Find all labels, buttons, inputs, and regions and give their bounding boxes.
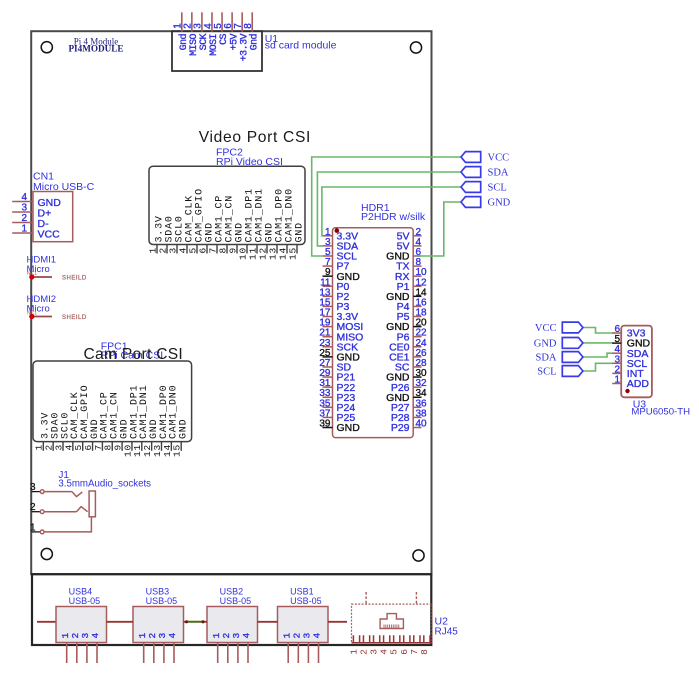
U2 pin 1 comb contact: [353, 635, 359, 643]
HDR1 pin 23 (SCK): stub, number, name: [323, 346, 333, 348]
net wire SDA to HDR1 pin 3 row: [317, 172, 461, 246]
jack U2 dashed outline: [352, 604, 433, 643]
HDR1 pin 28 (SC): stub, number, name: [413, 366, 421, 368]
U1 pin 2 (MISO): line, number, name: [191, 12, 193, 32]
svg-text:USB-05: USB-05: [220, 596, 252, 606]
HDR1 pin 24 (CE0): stub, number, name: [413, 346, 421, 348]
net wire GND to U3 pin 5: [583, 342, 613, 344]
HDR1 box: [333, 228, 414, 438]
U2 pin 2 comb contact: [363, 635, 369, 643]
svg-text:39: 39: [319, 419, 331, 430]
svg-text:USB1: USB1: [290, 586, 314, 596]
net flag VCC (left group): [461, 152, 481, 163]
mounting hole top-right: [410, 42, 421, 53]
net wire VCC to HDR1 pin 5 row: [312, 157, 461, 256]
svg-text:USB3: USB3: [146, 586, 170, 596]
U2 pin comb base line: [352, 642, 432, 644]
svg-text:SDA: SDA: [488, 168, 509, 179]
net stub to USB4 (left): [37, 621, 56, 623]
HDR1 pin 20 (GND): stub, number, name: [413, 326, 421, 328]
CN1 pin 4 (GND): line, number, name: [12, 201, 33, 203]
net segment USB3-USB2 (olive wire): [187, 621, 204, 623]
board outline bottom section: [32, 574, 431, 645]
svg-text:3.5mmAudio_sockets: 3.5mmAudio_sockets: [58, 479, 151, 490]
svg-text:USB4: USB4: [69, 586, 93, 596]
svg-text:RJ45: RJ45: [435, 626, 459, 637]
HDR1 pin 8 (TX): stub, number, name: [413, 265, 421, 267]
HDR1 pin 40 (P29): stub, number, name: [413, 427, 421, 429]
svg-text:GND: GND: [534, 338, 557, 349]
HDR1 pin 17 (3.3V): stub, number, name: [323, 316, 333, 318]
sensor U3 box: [621, 326, 652, 398]
U3 pin 1 (ADD): stub, number, name: [612, 383, 621, 385]
svg-text:PI4MODULE: PI4MODULE: [68, 44, 123, 54]
net wire VCC to U3 pin 6: [583, 328, 613, 334]
HDR1 pin 2 (5V): stub, number, name: [413, 235, 421, 237]
svg-text:4: 4: [21, 192, 27, 203]
HDR1 pin 31 (P22): stub, number, name: [323, 386, 333, 388]
CN1 pin 3 (D+): line, number, name: [12, 211, 33, 213]
HDR1 pin 36 (P27): stub, number, name: [413, 406, 421, 408]
svg-text:GND: GND: [488, 198, 511, 209]
net wire SDA to U3 pin 4: [583, 353, 613, 357]
U3 pin 3 (SCL): stub, number, name: [612, 362, 621, 364]
svg-text:VCC: VCC: [488, 153, 510, 164]
net wire SCL to HDR1 pin 1 row: [322, 187, 461, 236]
net flag SCL (left group): [461, 182, 481, 193]
svg-text:P29: P29: [391, 422, 410, 434]
U2 pin 3 comb contact: [374, 635, 380, 643]
svg-text:VCC: VCC: [535, 323, 557, 334]
mounting hole bottom-right: [413, 550, 424, 561]
svg-text:40: 40: [416, 419, 428, 430]
HDR1 pin 14 (GND): stub, number, name: [413, 295, 421, 297]
U2 pin 5 comb contact: [394, 635, 400, 643]
HDR1 pin 1 marker dot: [335, 228, 340, 233]
J1 pin 3 open circle and contact line: [40, 490, 44, 494]
svg-text:4: 4: [90, 633, 101, 639]
junction dot right of olive segment: [201, 620, 204, 623]
svg-text:SCL: SCL: [537, 367, 556, 378]
U2 dashed tick left: [365, 592, 367, 604]
net wire GND to HDR1 pin 6 row: [418, 202, 461, 256]
J1 pin 1 open circle and line to sleeve: [40, 530, 44, 534]
HDR1 pin 39 (GND): stub, number, name: [323, 427, 333, 429]
svg-text:USB2: USB2: [220, 586, 244, 596]
svg-text:8: 8: [419, 649, 430, 655]
U2 RJ45 jack symbol: [380, 614, 403, 629]
HDR1 pin 33 (P23): stub, number, name: [323, 396, 333, 398]
svg-text:1: 1: [21, 224, 27, 235]
HDR1 pin 19 (MOSI): stub, number, name: [323, 326, 333, 328]
svg-text:4: 4: [312, 633, 323, 639]
mounting hole bottom-left: [41, 548, 52, 559]
HDR1 pin 1 (3.3V): stub, number, name: [323, 235, 333, 237]
net flag VCC (U3 group): [562, 322, 583, 333]
HDR1 pin 26 (CE1): stub, number, name: [413, 356, 421, 358]
J1 jack barrel: [89, 491, 95, 517]
net segment USB2-USB1: [258, 621, 278, 623]
U2 pin 7 comb contact: [414, 635, 420, 643]
svg-text:SHEILD: SHEILD: [62, 315, 87, 321]
net wire SCL to U3 pin 3: [583, 363, 613, 371]
svg-text:8: 8: [243, 23, 254, 29]
U2 dashed tick right: [415, 592, 417, 604]
net flag GND (U3 group): [562, 338, 583, 349]
svg-text:SCL: SCL: [488, 183, 507, 194]
net segment USB4-USB3: [107, 621, 134, 623]
J1 pin 2 open circle and contact line: [40, 510, 44, 514]
HDR1 pin 12 (P1): stub, number, name: [413, 285, 421, 287]
svg-text:4: 4: [167, 633, 178, 639]
HDR1 pin 10 (RX): stub, number, name: [413, 275, 421, 277]
net flag GND (left group): [461, 197, 481, 208]
net segment USB3-USB2 (red stubs): [184, 621, 188, 623]
svg-text:VCC: VCC: [38, 229, 61, 241]
U2 pin 4 comb contact: [384, 635, 390, 643]
HDR1 pin 22 (P6): stub, number, name: [413, 336, 421, 338]
J1 pin 1 tick: [32, 531, 41, 533]
svg-text:SHEILD: SHEILD: [62, 276, 87, 282]
U3 pin 6 (3V3): stub, number, name: [612, 332, 621, 334]
svg-text:MPU6050-TH: MPU6050-TH: [631, 406, 690, 417]
HDR1 pin 27 (SD): stub, number, name: [323, 366, 333, 368]
U3 pin 4 (SDA): stub, number, name: [612, 352, 621, 354]
HDMI1 shield pin line: [32, 276, 52, 278]
J1 pin 3 tick: [32, 491, 41, 493]
J1 pin 2 tick: [32, 511, 41, 513]
svg-text:1: 1: [614, 375, 620, 386]
HDR1 pin 18 (P5): stub, number, name: [413, 316, 421, 318]
HDR1 pin 37 (P25): stub, number, name: [323, 416, 333, 418]
svg-text:2: 2: [21, 213, 27, 224]
HDR1 pin 30 (GND): stub, number, name: [413, 376, 421, 378]
HDR1 pin 35 (P24): stub, number, name: [323, 406, 333, 408]
U1 pin 1 (Gnd): line, number, name: [181, 12, 183, 32]
U1 pin 5 (CS): line, number, name: [221, 12, 223, 32]
HDR1 pin 5 (SCL): stub, number, name: [323, 255, 333, 257]
svg-text:SDA: SDA: [535, 353, 556, 364]
HDMI1 junction dot: [29, 274, 34, 279]
board outline (module body): [31, 31, 431, 574]
HDR1 pin 16 (P4): stub, number, name: [413, 305, 421, 307]
svg-text:15: 15: [287, 247, 298, 260]
U2 pin 6 comb contact: [404, 635, 410, 643]
USB2 box: [207, 607, 258, 643]
HDR1 pin 7 (P7): stub, number, name: [323, 265, 333, 267]
CN1 box: [33, 192, 73, 242]
svg-text:4: 4: [241, 633, 252, 639]
USB1 box: [278, 607, 329, 643]
svg-text:USB-05: USB-05: [146, 596, 178, 606]
net stub USB1 to U2: [328, 621, 347, 623]
FPC1 box: [33, 361, 192, 442]
svg-text:GND: GND: [294, 222, 305, 242]
svg-text:USB-05: USB-05: [290, 596, 322, 606]
USB3 box: [133, 607, 184, 643]
FPC2 box: [149, 166, 305, 244]
U1 pin 4 (MOSI): line, number, name: [211, 12, 213, 32]
HDR1 pin 15 (P3): stub, number, name: [323, 305, 333, 307]
CN1 pin 1 (VCC): line, number, name: [12, 232, 33, 234]
HDR1 pin 6 (GND): stub, number, name: [413, 255, 421, 257]
HDR1 pin 4 (5V): stub, number, name: [413, 245, 421, 247]
HDMI2 shield pin line: [32, 316, 52, 318]
U1 pin 3 (SCK): line, number, name: [201, 12, 203, 32]
HDR1 pin 9 (GND): stub, number, name: [323, 275, 333, 277]
U1 pin 7 (+3.3V): line, number, name: [241, 12, 243, 32]
net flag SDA (U3 group): [562, 352, 583, 363]
HDMI2 junction dot: [29, 314, 34, 319]
HDR1 pin 11 (P0): stub, number, name: [323, 285, 333, 287]
HDR1 pin 29 (P21): stub, number, name: [323, 376, 333, 378]
svg-text:GND: GND: [337, 422, 361, 434]
HDR1 pin 25 (GND): stub, number, name: [323, 356, 333, 358]
HDR1 pin 32 (P26): stub, number, name: [413, 386, 421, 388]
junction dot left of olive segment: [185, 620, 188, 623]
U1 pin 6 (+5V): line, number, name: [231, 12, 233, 32]
svg-text:USB-05: USB-05: [69, 596, 101, 606]
svg-text:sd card module: sd card module: [265, 40, 337, 52]
svg-text:GND: GND: [179, 419, 190, 439]
svg-text:ADD: ADD: [627, 378, 650, 390]
net flag SDA (left group): [461, 167, 481, 178]
svg-text:Gnd: Gnd: [248, 33, 260, 50]
svg-text:P2HDR w/silk: P2HDR w/silk: [361, 211, 426, 223]
HDR1 pin 13 (P2): stub, number, name: [323, 295, 333, 297]
USB4 box: [56, 607, 107, 643]
U2 pin 8 comb contact: [424, 635, 430, 643]
svg-text:3: 3: [21, 203, 27, 214]
HDR1 pin 38 (P28): stub, number, name: [413, 416, 421, 418]
U3 pin 2 (INT): stub, number, name: [612, 372, 621, 374]
HDR1 pin 34 (GND): stub, number, name: [413, 396, 421, 398]
mounting hole top-left: [41, 42, 52, 53]
HDR1 pin 21 (MISO): stub, number, name: [323, 336, 333, 338]
svg-text:15: 15: [172, 444, 183, 457]
CN1 pin 2 (D-): line, number, name: [12, 222, 33, 224]
HDR1 pin 3 (SDA): stub, number, name: [323, 245, 333, 247]
U3 pin 1 marker dot: [625, 389, 629, 393]
svg-text:Video Port CSI: Video Port CSI: [199, 129, 311, 146]
net flag SCL (U3 group): [562, 366, 583, 377]
U1 pin 8 (Gnd): line, number, name: [251, 12, 253, 32]
connector U1 sd card module box: [172, 31, 262, 71]
U3 pin 5 (GND): stub, number, name: [612, 342, 621, 344]
